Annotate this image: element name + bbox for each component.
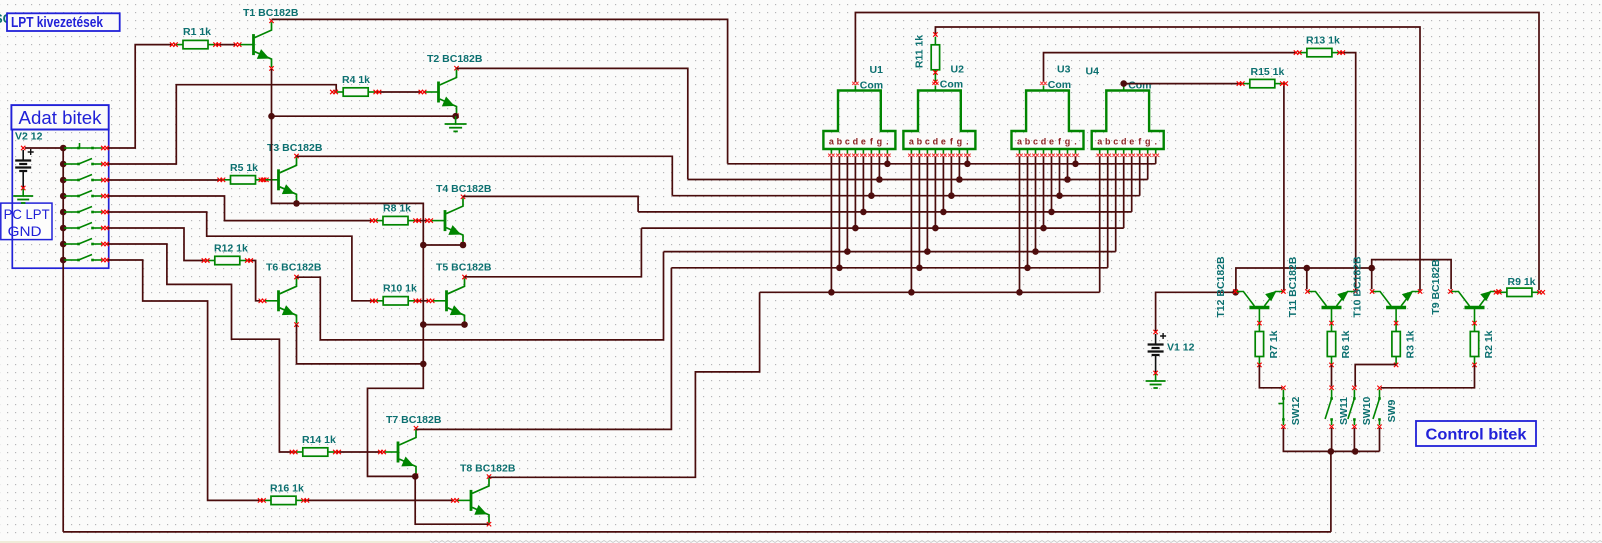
label box: Adat bitek	[11, 105, 108, 129]
wire R15 to T12 emitter	[1282, 84, 1285, 291]
wire T3 emitter stub	[296, 202, 298, 204]
wire T7/T8 emitter rail	[415, 476, 488, 524]
U4 pin Com	[1123, 86, 1125, 91]
transistor T10	[1352, 256, 1423, 318]
svg-text:R15 1k: R15 1k	[1251, 66, 1285, 78]
switch (LPT data bit)	[64, 255, 109, 263]
wire T6 emitter down	[297, 325, 424, 364]
svg-text:e: e	[941, 137, 946, 147]
svg-text:T6 BC182B: T6 BC182B	[266, 262, 322, 274]
junction (data column)	[60, 257, 67, 264]
resistor R15	[1237, 66, 1288, 88]
U1 pin dp	[884, 149, 890, 164]
svg-text:R14 1k: R14 1k	[302, 434, 336, 446]
svg-text:U4: U4	[1086, 66, 1100, 78]
U2 pin b	[916, 149, 922, 268]
switch (LPT data bit)	[64, 239, 109, 247]
svg-text:c: c	[1113, 137, 1118, 147]
transistor T7	[378, 414, 442, 478]
svg-text:R6 1k: R6 1k	[1340, 330, 1352, 358]
junction U2.b on bus	[916, 265, 923, 272]
U4 pin f	[1137, 149, 1143, 196]
wire segment bus dp	[728, 163, 1156, 165]
svg-text:R7 1k: R7 1k	[1268, 330, 1280, 358]
svg-text:V1 12: V1 12	[1167, 342, 1195, 354]
junction U3.a on bus	[1016, 289, 1023, 296]
svg-text:U1: U1	[870, 64, 884, 76]
svg-text:T11 BC182B: T11 BC182B	[1287, 256, 1299, 317]
wire rail to T10 collector	[1371, 268, 1373, 289]
wire R2 to SW9	[1381, 365, 1475, 388]
wire R7 to SW12	[1259, 365, 1282, 388]
wire T4 collector to bus e	[463, 196, 638, 212]
svg-text:c: c	[925, 137, 930, 147]
U1 pin g	[876, 149, 882, 180]
ground (T1/T2 emitters)	[445, 116, 467, 131]
junction T4 emitter	[460, 242, 467, 249]
resistor R13	[1294, 35, 1345, 57]
wire R6 to SW11	[1331, 365, 1333, 386]
junction U3.dp on bus	[1072, 161, 1079, 168]
resistor R2	[1470, 321, 1495, 367]
svg-text:Adat bitek: Adat bitek	[19, 107, 103, 128]
wire emitter rail T1-T2	[272, 115, 456, 117]
junction (data column)	[60, 161, 67, 168]
svg-text:R12 1k: R12 1k	[214, 243, 248, 255]
U3 pin dp	[1072, 149, 1078, 164]
U2 pin g	[956, 149, 962, 180]
display U2 (7-segment)	[903, 91, 975, 150]
junction U2.c on bus	[924, 248, 931, 255]
wire emitter trunk	[272, 116, 424, 476]
U4 pin d	[1121, 149, 1127, 228]
wire row6 to R12	[108, 228, 206, 261]
wire segment bus b	[671, 267, 1107, 269]
wire R11 to T10 emitter	[935, 27, 1420, 290]
resistor R9	[1494, 276, 1545, 297]
svg-text:Com: Com	[940, 79, 963, 91]
wire V1 to T12 collector	[1156, 292, 1235, 331]
U2 pin e	[940, 149, 946, 212]
wire R16 to T8 base	[305, 499, 453, 501]
U3 pin b	[1024, 149, 1030, 268]
junction U2.d on bus	[932, 225, 939, 232]
junction U3.e on bus	[1048, 209, 1055, 216]
battery V2	[15, 131, 43, 191]
U3 pin a	[1016, 149, 1022, 292]
wire T10 base to R3	[1395, 316, 1397, 323]
switch (LPT data bit)	[64, 207, 109, 215]
wire SW11 down	[1331, 428, 1333, 451]
ground (V1)	[1146, 374, 1166, 388]
U3 pin c	[1032, 149, 1038, 252]
U2 pin a	[908, 149, 914, 292]
wire T5 emitter rail	[423, 324, 464, 326]
resistor R12	[202, 243, 253, 265]
svg-text:Com: Com	[1048, 79, 1071, 91]
svg-text:PC LPT: PC LPT	[4, 206, 50, 222]
junction T3 emitter	[293, 200, 300, 207]
junction SW11/rail	[1328, 448, 1335, 455]
junction SW10/rail	[1352, 448, 1359, 455]
switch SW10	[1348, 386, 1373, 429]
wire row2 to R4	[108, 85, 336, 164]
wire U1 Com to R9	[855, 13, 1539, 291]
junction T12 collector	[1232, 289, 1239, 296]
switch SW12	[1278, 386, 1302, 429]
wire T3 collector to bus f	[297, 156, 673, 195]
svg-text:T3 BC182B: T3 BC182B	[267, 142, 323, 154]
svg-text:.: .	[966, 137, 969, 147]
resistor R10	[370, 283, 421, 306]
svg-text:d: d	[933, 137, 939, 147]
transistor T3	[259, 142, 323, 206]
svg-text:U3: U3	[1057, 64, 1071, 76]
junction U3.d on bus	[1040, 225, 1047, 232]
wire rail to T11 collector	[1306, 268, 1308, 289]
display U4 (7-segment)	[1092, 91, 1164, 150]
svg-text:R1 1k: R1 1k	[183, 26, 211, 38]
svg-text:T8 BC182B: T8 BC182B	[460, 463, 516, 475]
junction U1.dp on bus	[884, 161, 891, 168]
svg-text:e: e	[1129, 137, 1134, 147]
junction T7 emitter	[412, 473, 419, 480]
svg-text:g: g	[877, 137, 883, 147]
switch (LPT data bit)	[64, 175, 109, 183]
U4 pin g	[1145, 149, 1151, 180]
junction U2.a on bus	[908, 289, 915, 296]
wire T2 collector to bus g	[457, 68, 688, 179]
switch SW9	[1373, 386, 1398, 429]
wire row7 to R14	[108, 244, 294, 452]
svg-text:R16 1k: R16 1k	[270, 483, 304, 495]
wire switch column vertical	[62, 148, 64, 532]
wire R1 to T1 base	[217, 44, 237, 46]
wire segment bus f	[672, 195, 1139, 197]
junction U3.g on bus	[1064, 176, 1071, 183]
resistor R14	[290, 434, 341, 456]
svg-text:U2: U2	[951, 64, 965, 76]
svg-text:b: b	[917, 137, 923, 147]
resistor R5	[217, 162, 268, 184]
wire segment bus g	[688, 179, 1148, 181]
U4 pin b	[1105, 149, 1111, 268]
svg-text:T9 BC182B: T9 BC182B	[1430, 259, 1442, 315]
svg-text:e: e	[861, 137, 866, 147]
wire row8 to R16	[108, 260, 262, 500]
transistor T9	[1430, 259, 1501, 316]
U1 pin e	[860, 149, 866, 212]
wire U3 Com to R13	[1044, 53, 1298, 82]
junction rail/T10	[1368, 265, 1375, 272]
resistor R16	[258, 483, 309, 505]
svg-text:d: d	[853, 137, 859, 147]
svg-text:V2 12: V2 12	[15, 131, 43, 143]
svg-text:R4 1k: R4 1k	[342, 74, 370, 86]
wire T12 base to R7	[1258, 316, 1260, 323]
junction (data column)	[60, 145, 67, 152]
wire T8 collector to bus a	[489, 292, 760, 477]
junction trunk/T6	[420, 361, 427, 368]
transistor T8	[451, 463, 516, 527]
resistor R3	[1392, 321, 1417, 367]
wire row3 to R5	[108, 179, 222, 181]
wire R8 to T4 base	[416, 220, 428, 222]
svg-text:T12 BC182B: T12 BC182B	[1215, 256, 1227, 318]
wire T1 collector to bus dp	[272, 19, 728, 163]
junction U3.b on bus	[1024, 265, 1031, 272]
wire row1 to R1	[108, 45, 173, 148]
display U1 (7-segment)	[823, 91, 895, 150]
wire segment bus a	[760, 291, 1100, 293]
resistor R4	[330, 74, 381, 96]
junction (data column)	[60, 177, 67, 184]
svg-text:e: e	[1049, 137, 1054, 147]
U3 pin Com	[1043, 86, 1045, 91]
junction U1.f on bus	[868, 192, 875, 199]
svg-text:b: b	[837, 137, 843, 147]
junction U3.f on bus	[1056, 192, 1063, 199]
switch (LPT data bit)	[64, 159, 109, 167]
wire segment bus d	[641, 227, 1123, 229]
wire T5 collector to bus d	[465, 228, 642, 277]
svg-text:Com: Com	[1128, 80, 1151, 92]
transistor T12	[1215, 256, 1286, 318]
svg-text:R8 1k: R8 1k	[383, 203, 411, 215]
svg-text:SW11: SW11	[1338, 397, 1350, 425]
svg-text:g: g	[1065, 137, 1071, 147]
wire rail to T9 collector	[1372, 260, 1451, 290]
svg-text:R5 1k: R5 1k	[230, 162, 258, 174]
resistor R7	[1255, 321, 1280, 367]
svg-text:SW9: SW9	[1386, 399, 1398, 422]
svg-text:SW12: SW12	[1290, 397, 1302, 426]
junction U1.g on bus	[876, 176, 883, 183]
wire T7 collector to bus b	[416, 268, 671, 430]
junction U3.c on bus	[1032, 248, 1039, 255]
LPT connector outline box	[12, 130, 108, 269]
wire T6 collector to bus c	[297, 252, 664, 340]
U2 pin f	[948, 149, 954, 196]
U1 pin Com	[854, 86, 856, 91]
switch (LPT data bit)	[64, 143, 109, 150]
U1 pin a	[828, 149, 834, 292]
svg-text:g: g	[1145, 137, 1151, 147]
switch (LPT data bit)	[64, 223, 109, 231]
svg-text:.: .	[1154, 137, 1157, 147]
junction U2.dp on bus	[964, 161, 971, 168]
U1 pin f	[868, 149, 874, 196]
resistor R6	[1327, 321, 1352, 367]
junction U1.c on bus	[844, 248, 851, 255]
transistor T5	[427, 262, 492, 327]
svg-text:T10 BC182B: T10 BC182B	[1352, 256, 1364, 318]
junction (data column)	[60, 193, 67, 200]
svg-text:R2 1k: R2 1k	[1483, 330, 1495, 358]
U3 pin d	[1040, 149, 1046, 228]
battery V1	[1148, 330, 1195, 375]
junction U2.g on bus	[956, 176, 963, 183]
wire T11 base to R6	[1331, 316, 1333, 323]
U2 pin d	[932, 149, 938, 228]
U3 pin g	[1064, 149, 1070, 180]
svg-text:Control bitek: Control bitek	[1426, 427, 1527, 444]
U4 pin dp	[1153, 149, 1159, 164]
wire row5 to R10	[108, 212, 374, 301]
svg-text:R9 1k: R9 1k	[1508, 276, 1536, 288]
svg-text:R11 1k: R11 1k	[914, 35, 926, 68]
svg-text:T4 BC182B: T4 BC182B	[436, 183, 492, 195]
svg-text:c: c	[1033, 137, 1038, 147]
svg-text:T2 BC182B: T2 BC182B	[427, 53, 483, 65]
wire SW9 down	[1379, 428, 1381, 451]
resistor R11	[931, 37, 939, 81]
svg-text:g: g	[957, 137, 963, 147]
junction U1.b on bus	[836, 265, 843, 272]
U2 pin dp	[964, 149, 970, 164]
svg-text:b: b	[1025, 137, 1031, 147]
wire U4 Com to R15	[1124, 83, 1242, 85]
junction U1.a on bus	[828, 289, 835, 296]
svg-text:T5 BC182B: T5 BC182B	[436, 262, 492, 274]
label box: PC LPT GND	[1, 203, 52, 240]
wire segment bus e	[638, 211, 1132, 213]
junction at ground	[452, 113, 459, 120]
U4 pin e	[1129, 149, 1135, 212]
U3 pin e	[1048, 149, 1054, 212]
resistor R1	[170, 26, 221, 49]
svg-text:R10 1k: R10 1k	[383, 283, 417, 295]
junction U1.d on bus	[852, 225, 859, 232]
label box: Control bitek	[1416, 421, 1536, 446]
U4 pin c	[1113, 149, 1119, 252]
label box: LPT kivezetesek	[7, 13, 120, 31]
wire segment bus c	[664, 251, 1116, 253]
svg-text:R13 1k: R13 1k	[1306, 35, 1340, 47]
wire R14 to T7 base	[337, 451, 382, 453]
svg-text:SW10: SW10	[1361, 397, 1373, 426]
transistor T11	[1287, 256, 1358, 317]
svg-text:b: b	[1105, 137, 1111, 147]
junction U1.e on bus	[860, 209, 867, 216]
U1 pin c	[844, 149, 850, 252]
U4 pin a	[1097, 149, 1103, 292]
junction trunk/T4	[420, 242, 427, 249]
svg-text:d: d	[1121, 137, 1127, 147]
junction (data column)	[60, 209, 67, 216]
svg-text:.: .	[1074, 137, 1077, 147]
wire SW10 down	[1353, 428, 1355, 451]
junction rail/T11	[1304, 265, 1311, 272]
junction (data column)	[60, 225, 67, 232]
junction emitter rail	[268, 113, 275, 120]
display U3 (7-segment)	[1012, 91, 1084, 150]
svg-text:.: .	[886, 137, 889, 147]
svg-text:T1 BC182B: T1 BC182B	[243, 7, 299, 19]
wire R10 to T5 base	[417, 300, 430, 302]
U2 pin c	[924, 149, 930, 252]
ground (V2)	[13, 189, 33, 203]
wire battery V2 to switch column	[25, 147, 63, 149]
wire bottom ground bus	[63, 531, 1331, 533]
wire R4 to T2 base	[376, 91, 422, 93]
svg-text:Com: Com	[860, 80, 883, 92]
junction U2.f on bus	[948, 192, 955, 199]
junction U4 Com	[1120, 80, 1127, 87]
switch (LPT data bit)	[64, 191, 109, 199]
U2 pin Com	[934, 86, 936, 91]
transistor T6	[259, 262, 322, 327]
wire V+ rail	[1236, 268, 1372, 292]
junction trunk/T5	[420, 321, 427, 328]
junction U2.e on bus	[940, 209, 947, 216]
wire rail down to bottom bus	[1330, 451, 1332, 532]
wire row4 to R8	[108, 196, 374, 221]
junction (data column)	[60, 241, 67, 248]
wire T1 emitter down	[271, 69, 273, 116]
transistor T2	[419, 53, 483, 118]
resistor R8	[370, 203, 421, 225]
junction T5 emitter	[461, 321, 468, 328]
bottom edge artifacts	[430, 541, 1602, 543]
wire R12 to T6 base	[249, 261, 262, 301]
transistor T1	[234, 7, 299, 71]
svg-text:T7 BC182B: T7 BC182B	[386, 414, 442, 426]
svg-text:d: d	[1041, 137, 1047, 147]
wire T4 emitter rail	[423, 244, 463, 246]
wire switch common rail	[1283, 428, 1379, 451]
U1 pin b	[836, 149, 842, 268]
svg-text:R3 1k: R3 1k	[1405, 330, 1417, 358]
svg-text:LPT kivezetések: LPT kivezetések	[11, 15, 104, 31]
U3 pin f	[1056, 149, 1062, 196]
wire T9 base to R2	[1474, 316, 1476, 323]
transistor T4	[425, 183, 492, 247]
svg-text:c: c	[845, 137, 850, 147]
U1 pin d	[852, 149, 858, 228]
switch SW11	[1325, 386, 1350, 429]
wire R13 to T11 emitter	[1340, 53, 1356, 291]
wire R3 to SW10	[1355, 365, 1396, 387]
